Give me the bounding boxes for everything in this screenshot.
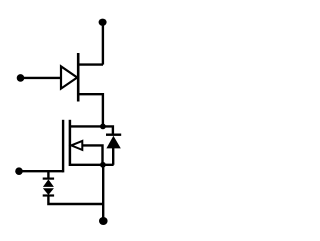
transistor Q1 channel bar xyxy=(69,120,72,166)
terminal node GATE (left, gate input) xyxy=(15,167,23,175)
terminal node TOP (drain/supply pin) xyxy=(99,19,107,26)
wire Q1 source stub xyxy=(70,164,114,166)
node A junction dot (drain node) xyxy=(100,124,106,130)
diode Z1 triangle (filled, pointing up) xyxy=(43,179,54,187)
wire gate to zener stack top xyxy=(47,171,49,178)
wire source node down to bottom terminal xyxy=(102,165,104,221)
diode Z2 cathode bar (bottom) xyxy=(43,194,54,196)
wire zener bottom to source rail xyxy=(48,196,103,205)
wire input terminal to triangle xyxy=(21,77,61,79)
diode D1 body diode cathode bar xyxy=(106,133,121,135)
wire D1 anode lead down to source rail xyxy=(112,148,114,165)
driver output bar (vertical plate) xyxy=(77,53,80,102)
wire top pin down to driver top lead xyxy=(102,22,104,65)
wire bottom lead of driver bar down to node A xyxy=(78,94,103,126)
wire Q1 gate lead from input terminal xyxy=(19,170,63,172)
transistor Q1 gate bar xyxy=(62,120,64,173)
transistor Q1 bulk arrow (points left, N-channel) xyxy=(71,141,82,150)
wire Q1 drain stub to body diode top xyxy=(70,126,113,134)
wire Q1 bulk stub to source node xyxy=(82,145,103,164)
terminal node INPUT (left, driver input) xyxy=(17,74,25,82)
node B junction dot (source node) xyxy=(100,162,106,168)
diode D1 body diode triangle (filled, pointing up) xyxy=(106,136,120,149)
diode Z1 cathode bar (top) xyxy=(43,178,54,180)
op-amp driver triangle U1 xyxy=(61,66,77,88)
wire top lead of driver output bar xyxy=(78,63,103,65)
diode Z2 triangle (filled, pointing down) xyxy=(43,188,54,195)
terminal node BOTTOM (source pin) xyxy=(99,217,108,225)
